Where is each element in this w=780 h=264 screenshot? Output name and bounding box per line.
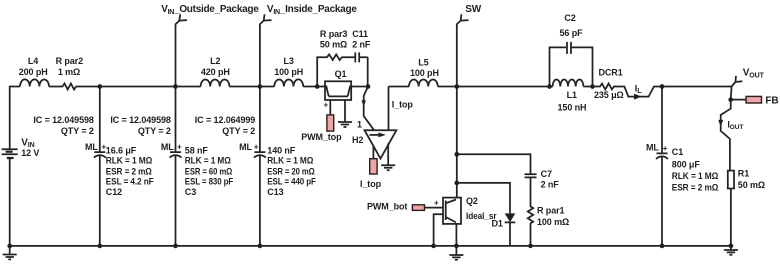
svg-text:50 mΩ: 50 mΩ	[738, 180, 765, 190]
svg-text:ESL = 440 pF: ESL = 440 pF	[267, 177, 316, 187]
svg-text:SW: SW	[465, 4, 482, 15]
svg-text:R par1: R par1	[537, 206, 565, 216]
svg-text:12 V: 12 V	[21, 148, 39, 158]
svg-text:PWM_bot: PWM_bot	[367, 202, 407, 212]
svg-text:L1: L1	[567, 90, 577, 100]
svg-text:QTY = 2: QTY = 2	[138, 126, 171, 136]
svg-text:DCR1: DCR1	[599, 67, 623, 77]
svg-text:C3: C3	[185, 187, 196, 197]
svg-text:VOUT: VOUT	[743, 68, 765, 80]
svg-text:VIN_Inside_Package: VIN_Inside_Package	[267, 4, 357, 16]
svg-text:100 pH: 100 pH	[410, 68, 439, 78]
svg-text:PWM_top: PWM_top	[301, 132, 342, 142]
svg-text:C1: C1	[672, 147, 683, 157]
svg-text:50 mΩ: 50 mΩ	[320, 40, 347, 50]
svg-text:I_top: I_top	[392, 100, 414, 110]
svg-text:C7: C7	[541, 169, 552, 179]
svg-text:RLK = 1 MΩ: RLK = 1 MΩ	[185, 156, 231, 166]
svg-text:IC = 12.049598: IC = 12.049598	[110, 115, 170, 125]
svg-text:IC = 12.064999: IC = 12.064999	[195, 115, 255, 125]
svg-text:D1: D1	[491, 218, 502, 228]
svg-text:I_top: I_top	[360, 179, 382, 189]
svg-text:ESR = 20 mΩ: ESR = 20 mΩ	[267, 167, 315, 177]
svg-text:R1: R1	[738, 169, 749, 179]
svg-text:Q1: Q1	[335, 69, 347, 79]
svg-text:C13: C13	[267, 187, 283, 197]
svg-text:2 nF: 2 nF	[352, 40, 371, 50]
svg-text:QTY = 2: QTY = 2	[61, 126, 94, 136]
svg-text:RLK = 1 MΩ: RLK = 1 MΩ	[106, 156, 153, 166]
svg-text:R par3: R par3	[320, 29, 348, 39]
svg-text:+: +	[177, 142, 182, 151]
svg-text:L2: L2	[210, 56, 220, 66]
svg-text:C12: C12	[106, 187, 122, 197]
svg-text:ESL = 4.2 nF: ESL = 4.2 nF	[106, 177, 154, 187]
svg-text:C11: C11	[352, 29, 368, 39]
svg-text:+: +	[434, 198, 439, 207]
svg-text:2 nF: 2 nF	[541, 179, 560, 189]
svg-text:C2: C2	[564, 13, 575, 23]
svg-text:ML: ML	[85, 142, 98, 152]
svg-text:ESL = 830 pF: ESL = 830 pF	[185, 177, 234, 187]
svg-text:420 pH: 420 pH	[201, 67, 230, 77]
svg-text:R par2: R par2	[56, 56, 84, 66]
svg-text:IOUT: IOUT	[727, 120, 743, 132]
svg-text:L3: L3	[284, 56, 294, 66]
svg-text:56 pF: 56 pF	[559, 28, 583, 38]
svg-text:H2: H2	[352, 135, 363, 145]
svg-text:16.6 μF: 16.6 μF	[106, 146, 137, 156]
svg-text:ESR = 2 mΩ: ESR = 2 mΩ	[106, 167, 152, 177]
svg-text:200 pH: 200 pH	[19, 67, 48, 77]
svg-text:ML: ML	[161, 142, 174, 152]
svg-text:150 nH: 150 nH	[558, 102, 587, 112]
svg-text:+: +	[324, 100, 329, 109]
svg-text:ML: ML	[239, 142, 252, 152]
svg-text:VIN_Outside_Package: VIN_Outside_Package	[161, 4, 259, 16]
svg-text:235 μΩ: 235 μΩ	[594, 90, 624, 100]
svg-text:1 mΩ: 1 mΩ	[58, 67, 80, 77]
svg-text:ESR = 2 mΩ: ESR = 2 mΩ	[672, 182, 719, 192]
svg-text:100 mΩ: 100 mΩ	[537, 217, 569, 227]
svg-text:58 nF: 58 nF	[185, 146, 209, 156]
svg-text:ESR = 60 mΩ: ESR = 60 mΩ	[185, 167, 232, 177]
svg-text:RLK = 1 MΩ: RLK = 1 MΩ	[267, 156, 313, 166]
svg-text:RLK = 1 MΩ: RLK = 1 MΩ	[672, 171, 719, 181]
svg-text:IC = 12.049598: IC = 12.049598	[33, 115, 93, 125]
svg-text:IL: IL	[635, 83, 642, 95]
svg-text:1: 1	[357, 119, 362, 129]
svg-text:Q2: Q2	[466, 196, 478, 206]
svg-text:800 μF: 800 μF	[672, 159, 701, 169]
svg-text:ML: ML	[646, 143, 659, 153]
svg-text:FB: FB	[765, 96, 778, 107]
svg-text:+: +	[254, 142, 259, 151]
svg-text:140 nF: 140 nF	[267, 146, 296, 156]
svg-text:+: +	[663, 144, 668, 153]
svg-text:L4: L4	[28, 56, 38, 66]
svg-text:QTY = 2: QTY = 2	[222, 126, 255, 136]
svg-text:L5: L5	[418, 57, 428, 67]
svg-text:100 pH: 100 pH	[274, 67, 303, 77]
